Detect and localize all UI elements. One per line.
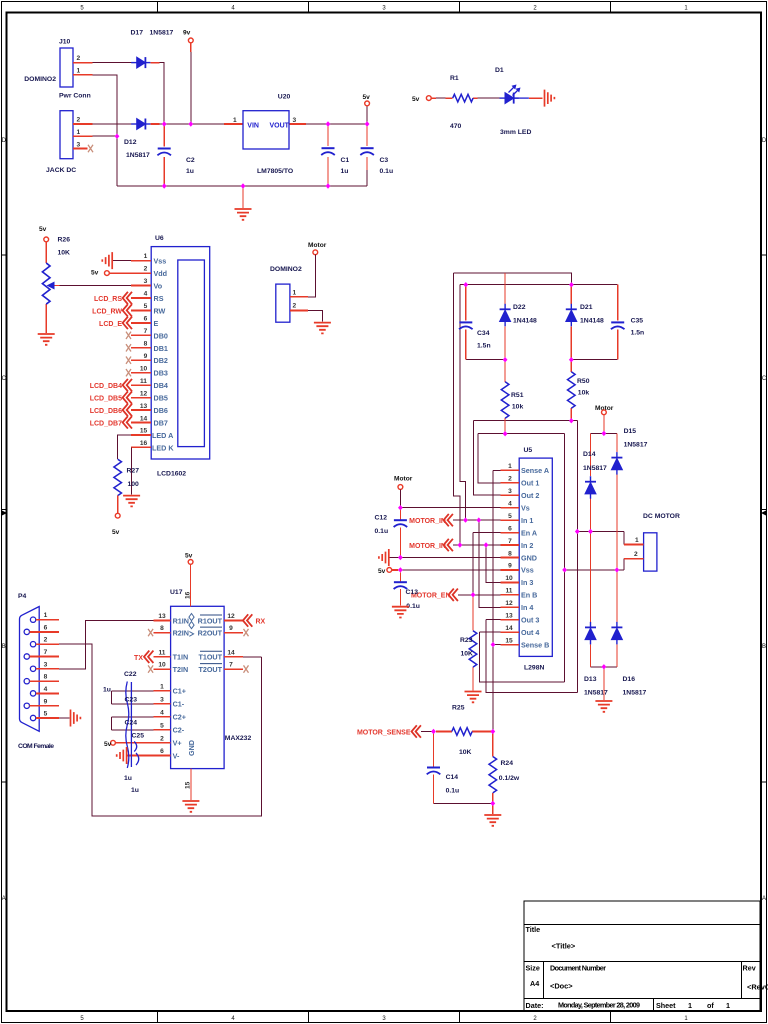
svg-text:R25: R25	[452, 705, 465, 712]
svg-text:10: 10	[158, 662, 166, 669]
svg-text:14: 14	[140, 416, 148, 423]
svg-text:LCD_E: LCD_E	[99, 321, 122, 328]
svg-text:C14: C14	[446, 774, 459, 781]
svg-text:1N5817: 1N5817	[150, 30, 174, 37]
svg-text:Motor: Motor	[308, 242, 327, 249]
svg-text:C1: C1	[341, 157, 350, 164]
svg-text:En B: En B	[521, 591, 537, 600]
svg-text:DB7: DB7	[154, 418, 168, 427]
svg-text:LCD_RS: LCD_RS	[94, 296, 122, 303]
svg-text:13: 13	[505, 613, 513, 620]
svg-text:C3: C3	[380, 157, 389, 164]
svg-text:9: 9	[508, 563, 512, 570]
svg-text:DB4: DB4	[154, 381, 168, 390]
svg-text:R1OUT: R1OUT	[198, 616, 223, 625]
svg-text:9v: 9v	[183, 30, 191, 37]
svg-text:LM7805/TO: LM7805/TO	[257, 168, 293, 175]
svg-text:T2OUT: T2OUT	[198, 665, 222, 674]
svg-text:3: 3	[144, 278, 148, 285]
svg-text:DOMINO2: DOMINO2	[24, 76, 56, 83]
svg-text:LCD_DB6: LCD_DB6	[90, 408, 122, 415]
svg-text:11: 11	[506, 588, 513, 595]
svg-text:1: 1	[44, 612, 48, 619]
svg-text:D14: D14	[583, 451, 596, 458]
svg-text:In 1: In 1	[521, 516, 533, 525]
svg-text:5v: 5v	[363, 94, 371, 101]
svg-text:4: 4	[160, 709, 164, 716]
svg-text:D12: D12	[124, 139, 137, 146]
svg-text:5v: 5v	[91, 270, 99, 277]
svg-text:DB3: DB3	[154, 369, 168, 378]
svg-text:C24: C24	[125, 720, 138, 727]
svg-text:5v: 5v	[104, 741, 112, 748]
svg-text:8: 8	[144, 341, 148, 348]
svg-text:1.5n: 1.5n	[477, 343, 491, 350]
svg-text:Out 4: Out 4	[521, 628, 539, 637]
svg-text:16: 16	[140, 440, 148, 447]
svg-text:1: 1	[635, 537, 639, 544]
svg-text:1N4148: 1N4148	[580, 318, 604, 325]
svg-text:MAX232: MAX232	[225, 735, 252, 742]
svg-text:JACK DC: JACK DC	[46, 167, 76, 174]
svg-text:MOTOR_SENSE: MOTOR_SENSE	[357, 730, 411, 737]
svg-text:R51: R51	[511, 392, 524, 399]
svg-text:9: 9	[229, 625, 233, 632]
svg-text:R2IN: R2IN	[173, 628, 189, 637]
svg-text:In 2: In 2	[521, 541, 533, 550]
svg-text:1.5n: 1.5n	[631, 330, 645, 337]
svg-text:A: A	[762, 896, 766, 902]
svg-text:5v: 5v	[412, 96, 420, 103]
svg-text:MOTOR_IN: MOTOR_IN	[409, 518, 446, 525]
svg-text:13: 13	[158, 613, 166, 620]
svg-text:8: 8	[508, 550, 512, 557]
svg-text:DOMINO2: DOMINO2	[270, 266, 302, 273]
svg-text:Date:: Date:	[526, 1001, 544, 1010]
svg-text:T1IN: T1IN	[173, 653, 189, 662]
svg-text:Out 3: Out 3	[521, 616, 539, 625]
svg-text:Out 2: Out 2	[521, 491, 539, 500]
svg-text:15: 15	[505, 637, 513, 644]
svg-text:6: 6	[508, 525, 512, 532]
svg-text:Pwr Conn: Pwr Conn	[59, 93, 91, 100]
svg-text:2: 2	[160, 735, 164, 742]
svg-text:LED K: LED K	[152, 443, 174, 452]
svg-text:A4: A4	[530, 979, 539, 988]
svg-text:3: 3	[508, 488, 512, 495]
svg-text:5: 5	[160, 722, 164, 729]
svg-text:DB1: DB1	[154, 344, 168, 353]
svg-text:V-: V-	[173, 751, 180, 760]
svg-text:9: 9	[144, 353, 148, 360]
svg-text:6: 6	[44, 624, 48, 631]
svg-text:GND: GND	[521, 553, 537, 562]
svg-text:LCD_DB4: LCD_DB4	[90, 383, 122, 390]
svg-text:D16: D16	[623, 676, 636, 683]
svg-text:LCD_RW: LCD_RW	[92, 308, 122, 315]
svg-text:VOUT: VOUT	[270, 122, 290, 129]
svg-text:En A: En A	[521, 528, 537, 537]
svg-text:2: 2	[293, 303, 297, 310]
svg-text:1: 1	[77, 68, 81, 75]
svg-text:1u: 1u	[341, 168, 349, 175]
svg-text:10K: 10K	[58, 250, 71, 257]
svg-text:5v: 5v	[39, 226, 47, 233]
svg-text:R26: R26	[58, 237, 71, 244]
svg-text:D: D	[762, 138, 767, 144]
svg-text:C2: C2	[186, 157, 195, 164]
svg-text:D21: D21	[580, 304, 593, 311]
svg-text:2: 2	[77, 55, 81, 62]
svg-text:5: 5	[508, 513, 512, 520]
svg-text:B: B	[762, 644, 766, 650]
svg-text:5v: 5v	[378, 568, 386, 575]
svg-text:10k: 10k	[578, 390, 590, 397]
svg-text:1u: 1u	[103, 687, 111, 694]
svg-text:15: 15	[185, 781, 192, 789]
svg-text:1N4148: 1N4148	[513, 318, 537, 325]
svg-text:3mm LED: 3mm LED	[500, 129, 531, 136]
svg-text:0.1u: 0.1u	[446, 788, 460, 795]
svg-text:1: 1	[293, 290, 297, 297]
svg-text:Vss: Vss	[521, 566, 534, 575]
svg-text:Title: Title	[526, 925, 541, 934]
svg-text:1: 1	[77, 129, 81, 136]
svg-text:LCD_DB7: LCD_DB7	[90, 420, 122, 427]
svg-text:2: 2	[508, 476, 512, 483]
svg-text:1N5817: 1N5817	[584, 690, 608, 697]
svg-text:Monday, September 28, 2009: Monday, September 28, 2009	[558, 1001, 640, 1010]
svg-text:D15: D15	[624, 428, 637, 435]
svg-text:4: 4	[44, 686, 48, 693]
svg-text:3: 3	[293, 117, 297, 124]
svg-text:C: C	[762, 376, 767, 382]
svg-text:2: 2	[634, 551, 638, 558]
svg-text:L298N: L298N	[524, 665, 544, 672]
svg-text:10K: 10K	[459, 749, 472, 756]
svg-text:7: 7	[229, 662, 233, 669]
svg-text:D13: D13	[584, 676, 597, 683]
svg-text:E: E	[154, 319, 159, 328]
svg-text:D: D	[2, 138, 7, 144]
svg-text:15: 15	[140, 428, 148, 435]
svg-text:16: 16	[185, 591, 192, 599]
svg-text:1N5817: 1N5817	[624, 442, 648, 449]
svg-text:VIN: VIN	[247, 122, 259, 129]
svg-text:C2+: C2+	[173, 713, 186, 722]
svg-text:5v: 5v	[185, 553, 193, 560]
svg-text:4: 4	[144, 291, 148, 298]
svg-text:C22: C22	[124, 671, 137, 678]
svg-text:11: 11	[140, 378, 147, 385]
svg-text:9: 9	[44, 698, 48, 705]
svg-text:Vo: Vo	[154, 282, 163, 291]
svg-text:7: 7	[44, 649, 48, 656]
svg-text:<Title>: <Title>	[552, 942, 576, 951]
svg-text:1: 1	[688, 1001, 692, 1010]
svg-text:8: 8	[44, 674, 48, 681]
svg-text:1: 1	[160, 683, 164, 690]
svg-text:D1: D1	[495, 67, 504, 74]
svg-text:DB6: DB6	[154, 406, 168, 415]
svg-text:1u: 1u	[131, 787, 139, 794]
svg-text:10k: 10k	[512, 404, 524, 411]
svg-text:C34: C34	[477, 330, 490, 337]
svg-text:U17: U17	[170, 589, 183, 596]
svg-text:TX: TX	[134, 655, 143, 662]
svg-text:1u: 1u	[124, 775, 132, 782]
svg-text:Document Number: Document Number	[550, 964, 606, 973]
svg-text:Vdd: Vdd	[154, 269, 168, 278]
svg-text:Vss: Vss	[154, 257, 167, 266]
svg-text:7: 7	[508, 538, 512, 545]
svg-text:14: 14	[505, 625, 513, 632]
svg-text:LCD_DB5: LCD_DB5	[90, 396, 122, 403]
svg-text:D17: D17	[131, 30, 144, 37]
svg-text:6: 6	[144, 316, 148, 323]
svg-text:1u: 1u	[186, 168, 194, 175]
svg-text:U5: U5	[524, 447, 533, 454]
svg-text:1: 1	[233, 117, 237, 124]
svg-text:12: 12	[505, 600, 513, 607]
svg-text:1: 1	[726, 1001, 730, 1010]
svg-text:B: B	[2, 644, 6, 650]
svg-text:2: 2	[44, 637, 48, 644]
svg-text:RW: RW	[154, 306, 166, 315]
svg-text:1N5817: 1N5817	[126, 152, 150, 159]
svg-text:12: 12	[140, 391, 148, 398]
svg-text:3: 3	[160, 696, 164, 703]
svg-text:Rev: Rev	[743, 964, 756, 973]
svg-text:1N5817: 1N5817	[583, 465, 607, 472]
svg-text:T2IN: T2IN	[173, 665, 189, 674]
svg-text:C: C	[2, 376, 7, 382]
svg-text:5v: 5v	[112, 529, 120, 536]
svg-text:5: 5	[144, 303, 148, 310]
svg-text:C23: C23	[125, 697, 138, 704]
svg-text:11: 11	[159, 649, 166, 656]
svg-text:R1: R1	[450, 75, 459, 82]
svg-text:RS: RS	[154, 294, 164, 303]
svg-text:1N5817: 1N5817	[623, 690, 647, 697]
svg-text:1: 1	[144, 253, 148, 260]
svg-text:R50: R50	[577, 378, 590, 385]
svg-text:<RevC: <RevC	[747, 983, 768, 992]
svg-text:7: 7	[144, 328, 148, 335]
svg-text:3: 3	[44, 661, 48, 668]
svg-text:C2-: C2-	[173, 726, 185, 735]
svg-text:of: of	[707, 1001, 714, 1010]
svg-text:10: 10	[505, 575, 513, 582]
svg-text:Size: Size	[526, 964, 540, 973]
svg-text:LCD1602: LCD1602	[157, 471, 186, 478]
svg-text:In 3: In 3	[521, 578, 533, 587]
svg-text:2: 2	[144, 266, 148, 273]
svg-text:R23: R23	[460, 637, 473, 644]
svg-text:R27: R27	[127, 468, 140, 475]
svg-text:13: 13	[140, 403, 148, 410]
svg-text:LED A: LED A	[152, 431, 173, 440]
svg-text:C12: C12	[375, 515, 388, 522]
svg-text:COM Female: COM Female	[18, 743, 54, 750]
svg-text:DB0: DB0	[154, 331, 168, 340]
svg-text:P4: P4	[18, 593, 27, 600]
svg-text:Motor: Motor	[394, 476, 413, 483]
svg-text:10: 10	[140, 366, 148, 373]
svg-text:470: 470	[450, 123, 462, 130]
svg-text:DB2: DB2	[154, 356, 168, 365]
svg-text:3: 3	[77, 142, 81, 149]
svg-text:R1IN: R1IN	[173, 616, 189, 625]
svg-text:C1+: C1+	[173, 687, 186, 696]
svg-text:Sheet: Sheet	[656, 1001, 676, 1010]
svg-text:6: 6	[160, 748, 164, 755]
svg-text:0.1u: 0.1u	[380, 168, 394, 175]
svg-text:C13: C13	[406, 589, 419, 596]
svg-text:5: 5	[44, 711, 48, 718]
svg-text:Out 1: Out 1	[521, 479, 539, 488]
svg-text:DC MOTOR: DC MOTOR	[643, 513, 680, 520]
svg-text:2: 2	[77, 117, 81, 124]
svg-text:100: 100	[128, 481, 140, 488]
svg-text:Sense A: Sense A	[521, 466, 549, 475]
svg-text:R24: R24	[501, 760, 514, 767]
svg-text:A: A	[2, 896, 6, 902]
svg-text:Sense B: Sense B	[521, 640, 549, 649]
svg-text:0.1u: 0.1u	[375, 528, 389, 535]
svg-text:10K: 10K	[461, 651, 474, 658]
svg-text:C25: C25	[132, 733, 145, 740]
svg-text:T1OUT: T1OUT	[198, 653, 222, 662]
svg-text:U6: U6	[155, 235, 164, 242]
svg-text:U20: U20	[278, 94, 291, 101]
svg-text:MOTOR_IN: MOTOR_IN	[409, 543, 446, 550]
svg-text:J10: J10	[59, 39, 71, 46]
svg-text:GND: GND	[187, 740, 196, 756]
svg-text:C35: C35	[631, 318, 644, 325]
svg-text:Vs: Vs	[521, 504, 530, 513]
svg-text:C1-: C1-	[173, 700, 185, 709]
svg-text:R2OUT: R2OUT	[198, 628, 223, 637]
svg-text:14: 14	[227, 649, 235, 656]
svg-text:12: 12	[227, 613, 235, 620]
svg-text:8: 8	[160, 625, 164, 632]
svg-text:V+: V+	[173, 739, 182, 748]
svg-text:4: 4	[508, 501, 512, 508]
svg-text:In 4: In 4	[521, 603, 533, 612]
svg-text:D22: D22	[513, 304, 526, 311]
svg-text:0.1/2w: 0.1/2w	[499, 775, 520, 782]
svg-text:1: 1	[508, 463, 512, 470]
svg-text:RX: RX	[256, 619, 266, 626]
svg-text:<Doc>: <Doc>	[550, 982, 573, 991]
svg-text:DB5: DB5	[154, 394, 168, 403]
